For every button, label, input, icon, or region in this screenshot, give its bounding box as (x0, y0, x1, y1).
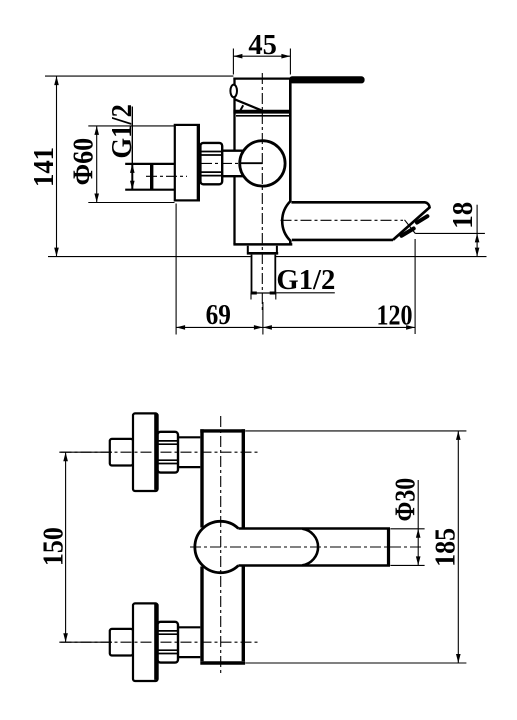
svg-text:45: 45 (248, 29, 277, 61)
flange (escutcheon) (175, 125, 199, 200)
spout bottom edge (292, 239, 393, 242)
cartridge circle arc (195, 521, 239, 572)
wall pipe divider (150, 164, 153, 190)
top inlet: disc thick edge (154, 415, 157, 490)
body bottom edge (200, 661, 245, 664)
dim 150 extension solid segments (59, 452, 112, 642)
circle radius line (240, 162, 262, 164)
dim phi30 arrows (416, 529, 421, 566)
spout centerline (281, 219, 404, 221)
dim 141 / 18 bottom extension (long) (48, 256, 487, 258)
bottom inlet centerline (61, 641, 259, 643)
svg-text:G1/2: G1/2 (276, 264, 335, 296)
spout bar fill mask (240, 530, 388, 564)
collar bottom (247, 252, 278, 255)
dim 45 extension lines (233, 49, 290, 75)
top inlet: hex nut (158, 432, 178, 473)
dim phi60 line (96, 126, 98, 203)
svg-text:141: 141 (28, 147, 60, 187)
valve axis centerline (201, 162, 239, 164)
dim 18 arrows (475, 233, 480, 256)
dim G1/2 arrows (130, 164, 135, 190)
top inlet: nut facets (158, 441, 178, 464)
dim 69/120 left extension (175, 204, 177, 335)
body left edge (200, 429, 203, 661)
dim 45 arrows (233, 54, 290, 59)
wall pipe G1/2 (125, 164, 175, 190)
eccentric nut (200, 143, 222, 184)
handle cap arc (302, 529, 318, 566)
svg-text:150: 150 (38, 527, 70, 566)
svg-text:69: 69 (206, 299, 231, 331)
top inlet: wall disc (133, 413, 158, 491)
shower outlet collar (248, 246, 277, 253)
bottom inlet: nut facets (158, 631, 178, 654)
body right edge (289, 78, 292, 245)
dim 141 line (56, 76, 58, 257)
svg-text:G1/2: G1/2 (106, 104, 138, 159)
top inlet: pipe end (110, 439, 133, 466)
top inlet: connector (178, 437, 200, 467)
dim 69/120 right extension (414, 239, 416, 334)
dim 141 top extension (45, 75, 233, 77)
body centerline (261, 73, 263, 311)
neck (222, 151, 243, 177)
body top edge (233, 77, 291, 79)
aerator dashes (402, 216, 428, 236)
handle base diagonal (235, 99, 263, 110)
outlet pipe (252, 255, 276, 293)
dim 185 extensions (245, 431, 466, 663)
dim 185 arrows (456, 431, 461, 663)
G1/2 bottom underline (276, 292, 335, 294)
spout bar top/bottom edges (238, 529, 390, 566)
dim 150 arrows (63, 452, 68, 642)
dim 150 line (65, 452, 67, 642)
dim G1/2 top leader line (131, 107, 133, 190)
body left edge (233, 78, 235, 245)
dim 45 line (233, 55, 290, 57)
dim 69/120 line (176, 326, 415, 328)
svg-text:120: 120 (377, 300, 413, 332)
handle lever bar (289, 76, 365, 83)
dim 69/120 middle extension (262, 302, 264, 335)
handle base bottom thick line (233, 110, 291, 114)
top inlet centerline (61, 451, 261, 453)
dim 185 line (457, 431, 459, 663)
body top edge (200, 429, 245, 432)
dim 141 arrows (54, 76, 59, 257)
outlet pipe overshoot (251, 293, 276, 300)
bottom inlet: wall disc (133, 603, 158, 681)
wall pipe centerline (146, 175, 187, 177)
body bottom edge (233, 243, 292, 246)
handle base tick (240, 105, 243, 111)
flange thick right edge (197, 125, 200, 200)
dim 18 top extension (415, 232, 485, 234)
nut facet lines (200, 152, 222, 176)
spout top edge and cut (291, 202, 429, 240)
body section line (236, 115, 290, 117)
spout centerline (190, 546, 424, 548)
handle hinge ellipse (230, 85, 237, 98)
spout end thick line (387, 529, 390, 566)
dim 18 line (476, 205, 478, 257)
leader diagonal at spout tip (405, 220, 416, 234)
bottom inlet: pipe end (110, 629, 133, 656)
bottom inlet: connector (178, 627, 200, 657)
outlet pipe bottom edge (251, 292, 277, 294)
body vertical centerline (220, 416, 222, 675)
bottom inlet: disc thick edge (154, 605, 157, 680)
thread ticks (251, 292, 277, 295)
dim phi60 arrows (94, 126, 99, 203)
spout-body fillet arc (282, 201, 290, 241)
svg-text:18: 18 (447, 202, 479, 229)
dim 69/120 arrows (176, 325, 415, 330)
dim phi60 extensions (88, 126, 174, 203)
dim phi30 extensions (390, 529, 424, 566)
dim phi30 line (417, 480, 419, 565)
body right edge (242, 429, 245, 661)
bottom inlet: hex nut (158, 622, 178, 663)
svg-text:Φ30: Φ30 (390, 478, 422, 521)
svg-text:Φ60: Φ60 (68, 138, 100, 186)
cartridge circle (240, 141, 285, 186)
svg-text:185: 185 (430, 528, 462, 567)
